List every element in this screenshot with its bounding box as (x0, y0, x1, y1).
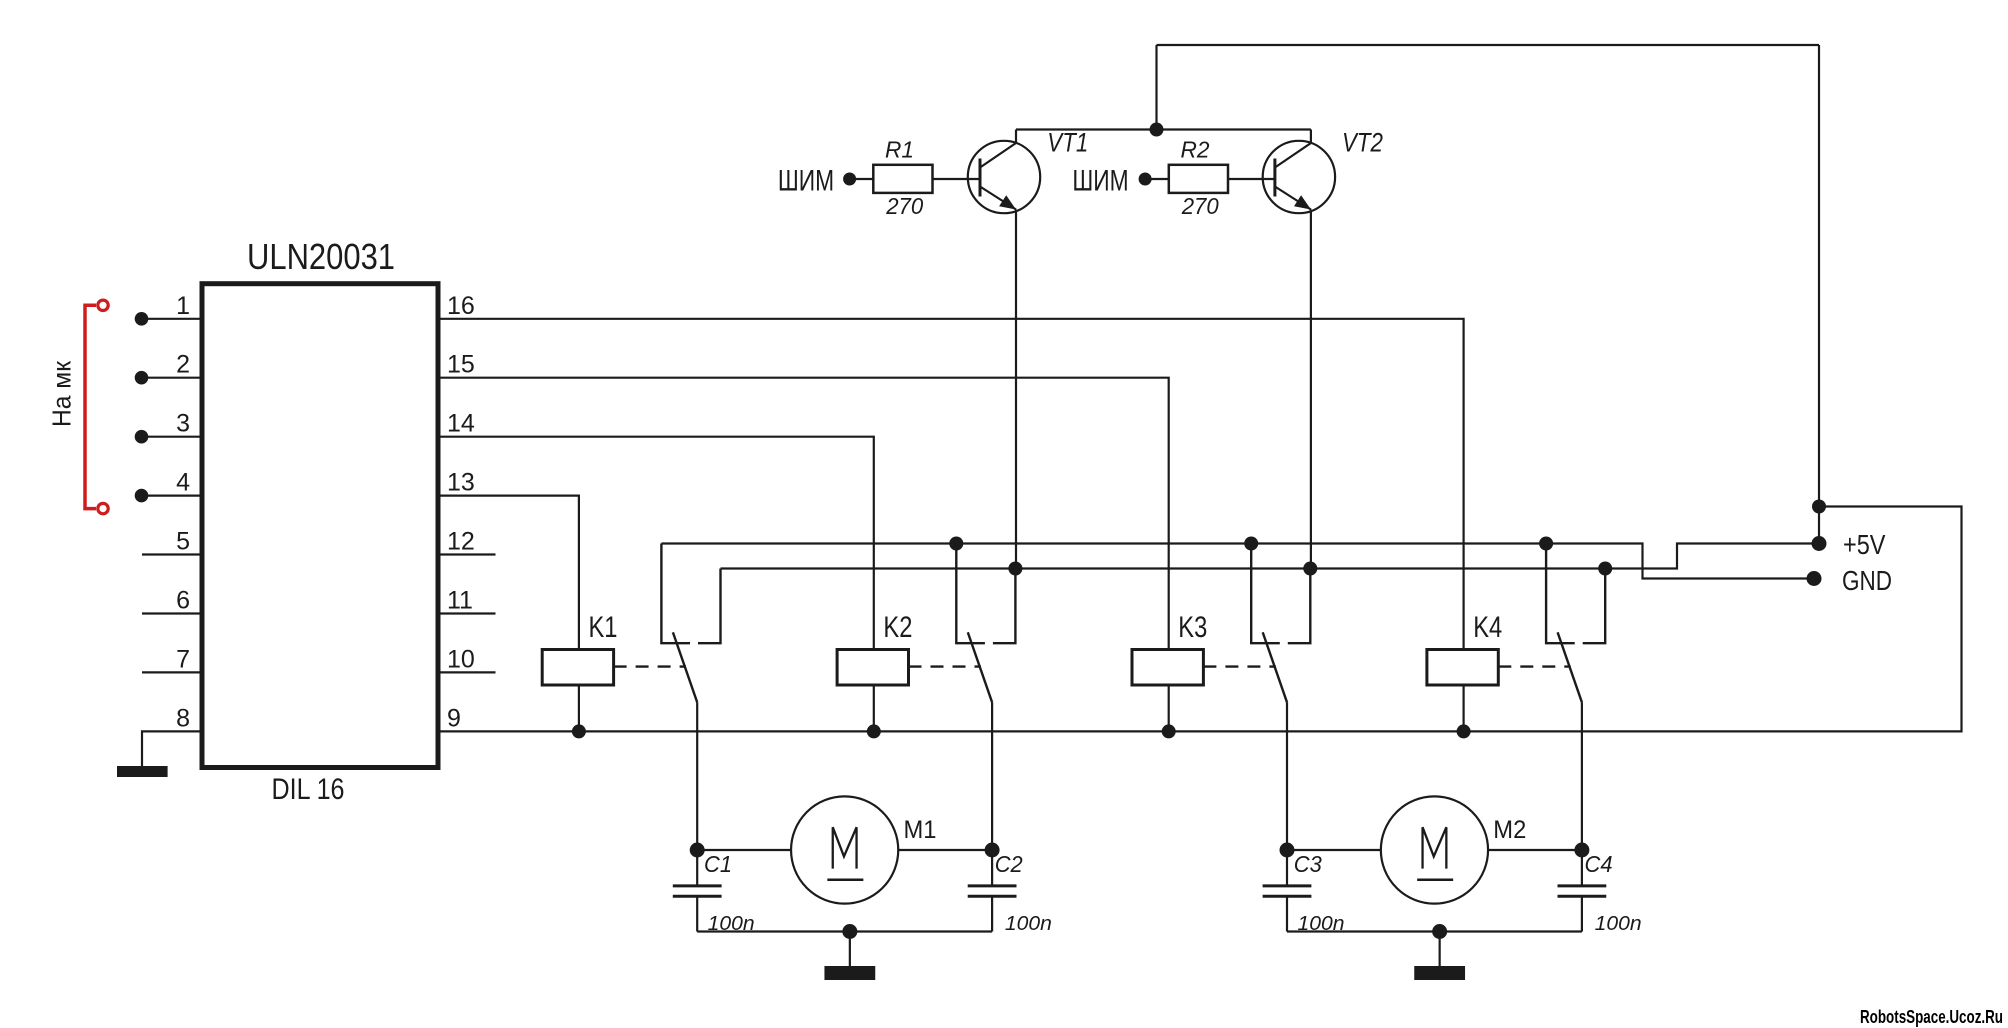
wire pin 11 stub (438, 612, 496, 614)
svg-text:12: 12 (447, 528, 475, 556)
wire pin 1 stub (142, 318, 202, 320)
transistor VT2 (1263, 130, 1335, 214)
node M1 ground junction (842, 924, 857, 939)
wire pin 5 stub (142, 553, 202, 555)
svg-text:ШИМ: ШИМ (778, 165, 834, 198)
svg-text:100n: 100n (1595, 912, 1642, 935)
contact K1 lever (673, 632, 697, 702)
resistor R2 (1169, 165, 1228, 193)
svg-text:K4: K4 (1473, 611, 1502, 644)
svg-text:1: 1 (176, 292, 190, 320)
wire collector bus VT1-VT2 (1016, 128, 1311, 130)
svg-text:11: 11 (447, 587, 473, 615)
svg-text:4: 4 (176, 469, 190, 497)
contact K4 lever (1558, 632, 1582, 702)
transistor VT1 (968, 130, 1040, 214)
wire K3 coil to pin rail (1168, 685, 1170, 731)
wire pin 15 to relay K3 coil (438, 378, 1169, 650)
node K2 contact-left on GND rail (949, 537, 963, 551)
wire pin 2 stub (142, 377, 202, 379)
svg-text:5: 5 (176, 528, 190, 556)
wire pin 14 to relay K2 coil (438, 437, 874, 650)
svg-text:K3: K3 (1178, 611, 1207, 644)
svg-text:M1: M1 (904, 816, 937, 844)
svg-text:VT1: VT1 (1047, 128, 1088, 158)
wire K2 coil to pin rail (873, 685, 875, 731)
node +5V top junction (1812, 500, 1826, 514)
wire pin 13 to relay K1 coil (438, 496, 579, 650)
svg-text:C2: C2 (995, 851, 1023, 877)
node K2 contact-right on +5V rail (1008, 562, 1022, 576)
wire pin 7 stub (142, 671, 202, 673)
capacitor C3 (1263, 884, 1312, 887)
motor M2 (1381, 796, 1488, 903)
svg-text:C1: C1 (704, 851, 732, 877)
svg-text:+5V: +5V (1843, 529, 1886, 560)
svg-text:K2: K2 (883, 611, 912, 644)
motor M1 (791, 796, 898, 903)
svg-text:ULN20031: ULN20031 (247, 236, 395, 277)
node K4 coil on pin9 rail (1457, 724, 1471, 738)
wire PWM1 to R1 (850, 178, 874, 180)
node pin 3 input (135, 430, 149, 444)
wire C3 to bottom rail (1286, 896, 1288, 931)
svg-text:15: 15 (447, 351, 475, 379)
svg-text:На мк: На мк (47, 360, 77, 427)
wire C4 to bottom rail (1581, 896, 1583, 931)
wire +5V rail (lower) (721, 544, 1820, 569)
capacitor C2 (968, 884, 1017, 887)
wire pin 3 stub (142, 436, 202, 438)
wire R2 to VT2 base (1228, 178, 1275, 180)
svg-text:13: 13 (447, 469, 475, 497)
wire M2 right lead (1488, 849, 1582, 851)
ground under M1 (824, 966, 875, 980)
wire K4 coil to pin rail (1462, 685, 1464, 731)
capacitor C4 (1558, 884, 1607, 887)
svg-text:9: 9 (447, 704, 461, 732)
svg-text:270: 270 (1181, 193, 1219, 219)
svg-text:3: 3 (176, 410, 190, 438)
wire C1 to bottom rail (696, 896, 698, 931)
wire pin 12 stub (438, 553, 496, 555)
node pin 4 input (135, 489, 149, 503)
wire GND rail (upper) (661, 544, 1814, 579)
wire M2 left lead (1287, 849, 1381, 851)
wire pin 8 stub (142, 731, 202, 766)
svg-text:8: 8 (176, 704, 190, 732)
relay K3 coil (1132, 650, 1203, 686)
wire K3 lever to motor terminal (1286, 702, 1288, 886)
wire pin 9 common rail to +5V loop (438, 507, 1962, 732)
node +5V (1812, 536, 1827, 551)
wire pin 6 stub (142, 612, 202, 614)
wire VT2 emitter down (1310, 210, 1312, 569)
wire M2 ground stem (1439, 932, 1441, 967)
svg-text:6: 6 (176, 587, 190, 615)
svg-text:K1: K1 (589, 611, 618, 644)
node pin 1 input (135, 312, 149, 326)
wire junction riser (1155, 45, 1157, 130)
node GND (1807, 571, 1822, 586)
node M2 ground junction (1432, 924, 1447, 939)
svg-text:ШИМ: ШИМ (1072, 165, 1128, 198)
node K2 coil on pin9 rail (867, 724, 881, 738)
svg-text:7: 7 (176, 645, 190, 673)
svg-text:DIL 16: DIL 16 (272, 773, 345, 806)
node M1 left terminal (690, 843, 705, 858)
node K1 coil on pin9 rail (572, 724, 586, 738)
node K4 contact-right on +5V rail (1598, 562, 1612, 576)
svg-text:14: 14 (447, 410, 475, 438)
contact K2 left terminal (956, 544, 985, 644)
link K2 coil-contact (dashed) (909, 665, 981, 667)
wire K1 lever to motor terminal (696, 702, 698, 886)
wire M1 ground stem (849, 932, 851, 967)
svg-text:R2: R2 (1181, 137, 1210, 163)
ground at IC pin 8 (117, 766, 168, 777)
relay K1 coil (542, 650, 613, 686)
wire VT1 emitter down (1015, 210, 1017, 569)
wire +5V junction to +5V node (1818, 507, 1820, 544)
node pin 2 input (135, 371, 149, 385)
link K1 coil-contact (dashed) (614, 665, 686, 667)
link K3 coil-contact (dashed) (1203, 665, 1275, 667)
node M2 left terminal (1280, 843, 1295, 858)
wire R1 to VT1 base (933, 178, 981, 180)
IC U1 ULN20031 body (202, 284, 438, 768)
wire K4 lever to motor terminal (1581, 702, 1583, 886)
wire M1 bottom rail (697, 930, 992, 932)
contact K2 right terminal (993, 569, 1016, 644)
wire M2 bottom rail (1287, 930, 1582, 932)
wire M1 right lead (898, 849, 992, 851)
svg-text:RobotsSpace.Ucoz.Ru: RobotsSpace.Ucoz.Ru (1860, 1007, 2003, 1027)
contact K2 lever (968, 632, 992, 702)
contact K1 left terminal (661, 544, 690, 644)
wire right supply drop (1818, 45, 1820, 507)
contact K4 right terminal (1583, 569, 1606, 644)
node M2 right terminal (1574, 843, 1589, 858)
contact K3 right terminal (1288, 569, 1311, 644)
contact K4 left terminal (1546, 544, 1575, 644)
svg-text:C3: C3 (1294, 851, 1322, 877)
red terminal ring bottom (98, 503, 108, 513)
wire top supply run (1157, 44, 1820, 46)
svg-text:VT2: VT2 (1342, 128, 1383, 158)
svg-text:GND: GND (1842, 565, 1892, 596)
svg-text:270: 270 (885, 193, 923, 219)
svg-text:R1: R1 (885, 137, 914, 163)
node K3 contact-left on GND rail (1244, 537, 1258, 551)
contact K3 left terminal (1251, 544, 1280, 644)
relay K4 coil (1427, 650, 1498, 686)
svg-text:100n: 100n (1005, 912, 1052, 935)
svg-text:C4: C4 (1585, 851, 1613, 877)
wire K2 lever to motor terminal (991, 702, 993, 886)
wire C2 to bottom rail (991, 896, 993, 931)
wire pin 4 stub (142, 495, 202, 497)
wire pin 16 to relay K4 coil (438, 319, 1464, 650)
node collector bus junction (1150, 123, 1164, 137)
node M1 right terminal (985, 843, 1000, 858)
ground under M2 (1414, 966, 1465, 980)
capacitor C1 (673, 884, 722, 887)
contact K3 lever (1263, 632, 1287, 702)
svg-text:2: 2 (176, 351, 190, 379)
resistor R1 (873, 165, 932, 193)
bracket to MCU (red) (85, 305, 96, 508)
wire PWM2 to R2 (1145, 178, 1169, 180)
node K3 contact-right on +5V rail (1303, 562, 1317, 576)
relay K2 coil (837, 650, 908, 686)
contact K1 right terminal (698, 569, 721, 644)
node K4 contact-left on GND rail (1539, 537, 1553, 551)
node K3 coil on pin9 rail (1162, 724, 1176, 738)
link K4 coil-contact (dashed) (1498, 665, 1570, 667)
svg-text:M2: M2 (1493, 816, 1526, 844)
red terminal ring top (98, 300, 108, 310)
wire M1 left lead (697, 849, 791, 851)
svg-text:10: 10 (447, 645, 475, 673)
svg-text:16: 16 (447, 292, 475, 320)
wire K1 coil to pin rail (578, 685, 580, 731)
wire pin 10 stub (438, 671, 496, 673)
